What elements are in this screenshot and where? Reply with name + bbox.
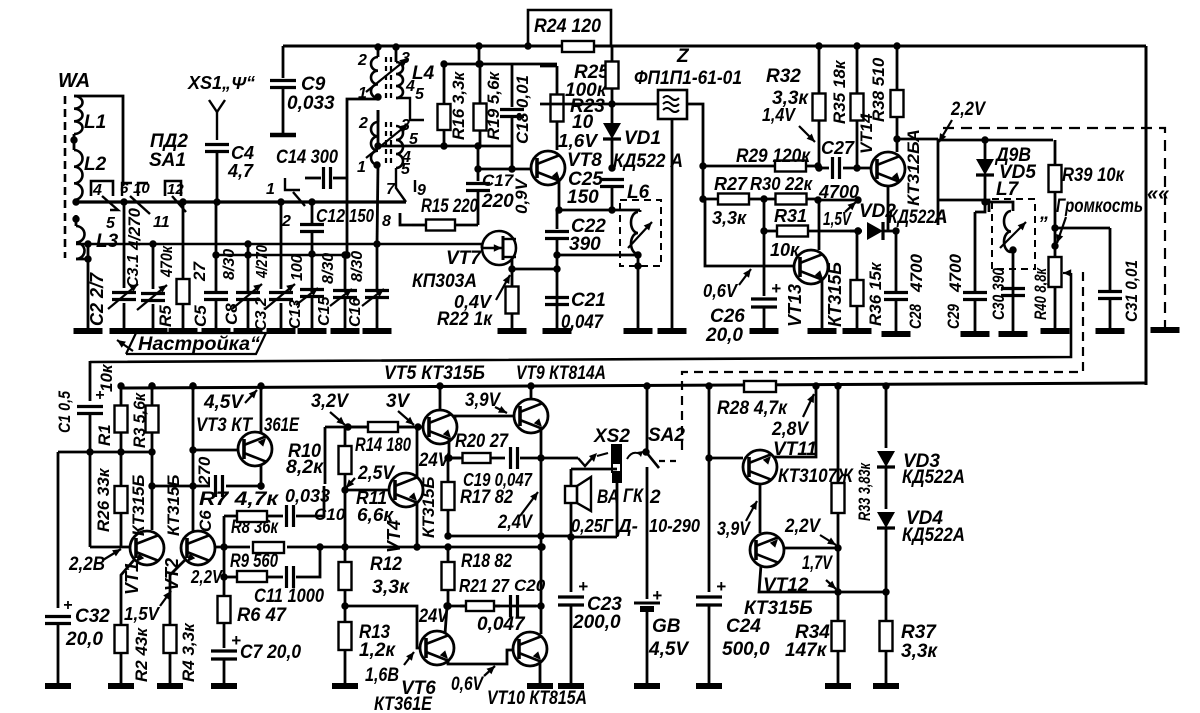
label VT8 (567, 150, 602, 171)
resistor R6 (218, 577, 231, 648)
svg-text:ГК: ГК (623, 486, 644, 507)
label R23 (570, 96, 605, 117)
wire col417 (413, 427, 420, 551)
svg-text:С7 20,0: С7 20,0 (240, 642, 301, 663)
label R34 value (785, 640, 828, 661)
svg-text:XS2: XS2 (593, 426, 630, 447)
svg-text:+: + (771, 279, 781, 298)
label C32 (75, 606, 110, 627)
svg-text:2,8V: 2,8V (771, 419, 809, 440)
svg-text:+: + (716, 577, 726, 596)
svg-text:R1: R1 (95, 424, 114, 446)
wire VT6 base link (345, 606, 419, 648)
ground R2 (108, 683, 134, 689)
label T1 pin4 (405, 78, 415, 95)
label pin11 (153, 214, 170, 231)
wire pin8 to R15 (400, 213, 412, 225)
label R24 (534, 16, 601, 37)
svg-text:20,0: 20,0 (65, 629, 103, 650)
svg-text:C14 300: C14 300 (276, 147, 338, 168)
resistor R3 (146, 382, 159, 455)
label pin4 (92, 182, 102, 199)
wire output hook (570, 453, 608, 466)
svg-text:4700: 4700 (818, 182, 859, 202)
resistor R32 (813, 42, 826, 171)
label C26 value (705, 325, 743, 346)
label C24 value (722, 639, 770, 660)
label VT4 type (419, 477, 438, 538)
label SA2 (648, 425, 685, 446)
svg-text:10: 10 (572, 112, 594, 133)
label voltage 3.9V (465, 390, 507, 413)
svg-text:11: 11 (153, 214, 170, 231)
svg-text:L3: L3 (96, 231, 119, 252)
label R25 value (565, 80, 608, 101)
svg-text:2: 2 (357, 52, 367, 69)
wire col541 (537, 433, 544, 634)
wire L3 bottom (76, 255, 92, 331)
label GB (652, 616, 681, 637)
label voltage 2.4V (497, 492, 538, 533)
svg-text:0,25Г: 0,25Г (571, 516, 614, 536)
label voltage 2.8V (771, 394, 814, 440)
svg-text:VT7: VT7 (446, 248, 482, 269)
capacitor C32 (45, 597, 72, 684)
label C8 value (221, 249, 238, 280)
label pin6 (120, 180, 129, 197)
transistor VT9 (514, 399, 548, 433)
svg-text:C19 0,047: C19 0,047 (463, 470, 533, 490)
svg-text:С15: С15 (316, 296, 333, 326)
label C27 (821, 138, 855, 158)
svg-text:C8: C8 (222, 303, 241, 325)
svg-text:L2: L2 (84, 154, 107, 175)
resistor R39 (1049, 140, 1062, 232)
ground R36 (843, 328, 872, 334)
label C5 (191, 305, 210, 327)
label voltage 1.6B (365, 652, 414, 686)
label C23 (587, 594, 622, 615)
svg-text:1,6В: 1,6В (365, 665, 399, 686)
label C20 (514, 576, 546, 595)
capacitor C5 (204, 202, 228, 331)
svg-text:361Е: 361Е (264, 415, 300, 436)
wire dashed mech link (682, 272, 1083, 452)
resistor R4 (164, 624, 177, 684)
wire VT12 emitter (759, 565, 890, 596)
inductor L7 (985, 202, 1026, 334)
label Z (676, 46, 690, 67)
label T2 pin3 (401, 117, 410, 134)
svg-text:24V: 24V (418, 450, 450, 471)
label VD1 (624, 128, 661, 149)
label C15 value (320, 253, 337, 284)
wire gate line (76, 243, 482, 245)
wire VT5 collector (436, 382, 443, 410)
svg-text:C13: C13 (287, 300, 304, 329)
svg-text:L6: L6 (627, 182, 650, 203)
svg-text:Z: Z (676, 46, 690, 67)
switch SA1 pin6 (122, 183, 132, 196)
label voltage 0.6Vtop (703, 269, 751, 301)
svg-text:С3.1: С3.1 (125, 254, 142, 288)
transformer T2 left winding (371, 122, 378, 165)
label R32 (766, 66, 801, 87)
wire T1 pin1 left (343, 93, 381, 258)
label R29 (736, 146, 811, 167)
svg-text:8: 8 (382, 213, 391, 230)
svg-text:ПД2: ПД2 (150, 131, 188, 152)
svg-text:390: 390 (569, 234, 601, 255)
label R38 (869, 57, 888, 122)
svg-text:R12: R12 (370, 554, 402, 575)
resistor R27 (703, 194, 764, 205)
capacitor C27 (818, 157, 872, 179)
label T1 pin3 (401, 50, 410, 67)
transistor VT2 (181, 531, 215, 565)
label T1 pin2 (357, 52, 367, 69)
wire VT13 collector (818, 200, 821, 250)
svg-text:КТ361Е: КТ361Е (374, 694, 433, 713)
svg-text:С29: С29 (944, 304, 963, 329)
label R37 value (901, 641, 938, 662)
resistor R33 (832, 382, 845, 548)
svg-text:1,5V: 1,5V (124, 604, 161, 624)
label C18 (513, 75, 532, 144)
label R15 (421, 196, 478, 217)
transistor VT14 (871, 152, 905, 186)
inductor L6 box (620, 200, 661, 266)
svg-text:10-290: 10-290 (649, 516, 700, 536)
wire VT4 base (345, 489, 389, 492)
label L7 (996, 179, 1020, 200)
svg-text:КД522А: КД522А (902, 525, 965, 546)
svg-text:L4: L4 (412, 63, 435, 84)
transistor VT4 (389, 473, 423, 507)
svg-text:10к: 10к (97, 363, 116, 392)
svg-text:С30 390: С30 390 (989, 268, 1008, 320)
label VD3 type (902, 467, 965, 488)
label voltage 1.5V (823, 202, 856, 229)
ground R22 (498, 328, 527, 334)
label C9 (301, 74, 326, 95)
svg-text:R18 82: R18 82 (461, 551, 512, 572)
wire VT2 emitter (170, 560, 185, 624)
wire line458 (448, 457, 460, 460)
svg-text:C4: C4 (231, 143, 254, 163)
label R8 (231, 517, 279, 538)
ground C3.2 (267, 328, 296, 334)
label VT1 type (129, 475, 148, 536)
label C21 value (561, 312, 604, 333)
label C11 (254, 586, 324, 607)
label L6 (627, 182, 650, 203)
label Gromkost (1056, 196, 1143, 217)
svg-text:R39 10к: R39 10к (1062, 165, 1125, 186)
label VT14 (857, 113, 876, 154)
label C12 (316, 206, 374, 226)
svg-text:КТ315Б: КТ315Б (164, 475, 183, 536)
wire L2 bottom to line (72, 198, 79, 205)
wire C26 col (763, 199, 766, 296)
label 2 (649, 487, 661, 508)
wire emitter line (612, 209, 640, 212)
label C9 value (287, 93, 335, 114)
svg-text:VT9 КТ814А: VT9 КТ814А (516, 363, 606, 384)
label R4 (179, 622, 198, 682)
resistor R1 (115, 386, 128, 456)
svg-text:„: „ (1039, 203, 1050, 224)
label VD3 (903, 451, 940, 472)
inductor L1 (74, 96, 83, 134)
battery GB (634, 586, 662, 684)
wire VT5 emitter (445, 439, 452, 462)
label VT3 type (264, 415, 300, 436)
label C10 (314, 505, 346, 524)
svg-text:220: 220 (481, 191, 514, 212)
label WA (58, 70, 90, 92)
capacitor C15 (330, 251, 357, 331)
wire plug down (616, 483, 619, 537)
diode VD3 (877, 382, 895, 509)
svg-text:R30 22к: R30 22к (750, 174, 813, 194)
label C29 value (946, 253, 965, 293)
wire line427 (325, 426, 423, 429)
label R36 (866, 261, 885, 326)
label SA1 (149, 150, 186, 171)
label R9 (230, 551, 278, 572)
capacitor C8 (232, 240, 262, 331)
capacitor C6 (216, 475, 265, 497)
label R39 (1062, 165, 1125, 186)
resistor R22 (506, 269, 519, 331)
label C21 (571, 290, 606, 311)
transistor VT13 (794, 250, 828, 284)
svg-text:8/30: 8/30 (320, 253, 337, 284)
wire VT13 base (705, 199, 794, 266)
svg-text:4: 4 (92, 182, 102, 199)
label R31 (774, 206, 807, 226)
svg-text:0,033: 0,033 (285, 486, 330, 506)
label C3.2 value (254, 245, 271, 279)
svg-text:КТ315Б: КТ315Б (744, 598, 813, 619)
ground VT13 (808, 328, 837, 334)
svg-text:2,2V: 2,2V (190, 567, 224, 587)
capacitor C19 (511, 447, 571, 469)
wire VT11 collector (774, 382, 820, 457)
diode VD1 (603, 104, 621, 172)
svg-text:VT14: VT14 (857, 113, 876, 154)
svg-text:6: 6 (120, 180, 129, 197)
resistor R2 (115, 624, 128, 684)
capacitor C22 (545, 210, 569, 331)
wire mid line y255 (216, 254, 347, 256)
svg-text:R22 1к: R22 1к (437, 309, 493, 330)
svg-text:0,6V: 0,6V (703, 281, 739, 301)
wire VT2 collector (189, 382, 196, 531)
wire C20 right (520, 605, 541, 608)
filter Z box (658, 90, 687, 119)
svg-text:КТ315Б: КТ315Б (825, 262, 845, 327)
resistor R15 (412, 220, 478, 231)
label C28 (906, 304, 925, 329)
resistor R9 (237, 571, 283, 582)
label T2 pin4 (401, 149, 411, 166)
antenna WA dashed rod (64, 96, 67, 258)
wire Z right (687, 104, 703, 199)
inductor L3 (76, 226, 85, 259)
svg-text:8,2к: 8,2к (286, 457, 324, 478)
ground GB (634, 683, 660, 689)
wire VT1 emitter (121, 560, 134, 624)
ground C29 (961, 331, 990, 337)
svg-text:WA: WA (58, 70, 90, 92)
label R28 (717, 398, 788, 419)
label T1 pin1 (358, 85, 367, 102)
label VT2 type (164, 475, 183, 536)
transistor VT6 (420, 631, 454, 665)
svg-text:R6 47: R6 47 (237, 605, 287, 626)
label VD4 type (902, 525, 965, 546)
label C1 (55, 391, 74, 433)
label GB value (648, 639, 689, 660)
svg-text:С11 1000: С11 1000 (254, 586, 324, 607)
label VT6 type (374, 694, 433, 713)
capacitor C24 (696, 382, 726, 684)
svg-text:2: 2 (358, 115, 368, 132)
label R13 (359, 622, 390, 643)
capacitor C7 (211, 631, 241, 684)
wire L1-L2 junction (70, 134, 77, 150)
capacitor C17 (466, 169, 490, 225)
svg-text:C2 2/7: C2 2/7 (87, 272, 107, 326)
label R7 (199, 489, 280, 510)
ground R13 (332, 683, 358, 689)
svg-text:470к: 470к (157, 245, 176, 278)
label voltage 2.2Vb (190, 567, 224, 587)
transformer T1 var arrow (366, 58, 408, 92)
label voltage 2.2Vtop (939, 99, 986, 142)
label Gromkost quote2 (1147, 183, 1169, 205)
speaker BA symbol (565, 477, 591, 511)
svg-text:27: 27 (190, 261, 209, 282)
svg-text:С17: С17 (482, 171, 515, 190)
label R14 (355, 435, 411, 456)
wire VT9 collector (527, 382, 534, 400)
capacitor C9 (270, 46, 296, 135)
label voltage 1.4V (762, 105, 815, 142)
svg-text:8/30: 8/30 (221, 249, 238, 280)
label VD5 (999, 162, 1036, 183)
capacitor C1 (77, 361, 104, 547)
wire R7C10 row (224, 515, 237, 518)
label L1 (84, 112, 106, 133)
svg-text:SA2: SA2 (648, 425, 685, 446)
svg-text:0,047: 0,047 (561, 312, 604, 333)
svg-text:0,6V: 0,6V (451, 674, 484, 695)
ground R4 (157, 683, 183, 689)
callout Nastroika arrow (117, 340, 133, 351)
capacitor C30 (1001, 289, 1025, 296)
label VT5 header (384, 363, 485, 384)
wire VT9 emitter (540, 428, 543, 433)
svg-text:R35 18к: R35 18к (830, 59, 849, 124)
label R13 value (359, 640, 396, 661)
label C25 value (567, 187, 599, 208)
transistor VT1 (130, 531, 164, 565)
label C29 (944, 304, 963, 329)
ground C16 (363, 328, 392, 334)
label voltage 3.2V (311, 391, 349, 425)
switch SA1 pin12 box (165, 181, 181, 196)
label C10 value (285, 486, 330, 506)
svg-text:3,3к: 3,3к (712, 208, 747, 228)
label C16 value (349, 251, 366, 282)
svg-text:R36 15к: R36 15к (866, 261, 885, 326)
resistor R24 box (524, 10, 611, 50)
label VT2 (162, 558, 182, 591)
ground Zfilter (658, 328, 687, 334)
svg-text:R4 3,3к: R4 3,3к (179, 622, 198, 682)
resistor R38 (891, 42, 904, 142)
svg-text:R19 5,6к: R19 5,6к (484, 70, 503, 140)
resistor R19 (474, 60, 487, 146)
label T2 pin1 (357, 159, 366, 176)
switch SA1 blade 4 (102, 196, 118, 210)
label C28 value (907, 253, 926, 293)
label R1 value (97, 363, 116, 392)
label C14 (276, 147, 338, 168)
label R40 (1031, 267, 1050, 320)
svg-text:C9: C9 (301, 74, 326, 95)
svg-text:КП303А: КП303А (412, 271, 477, 292)
label L3 (96, 231, 119, 252)
wire C17 junction (474, 142, 512, 172)
label Gromkost quote (1039, 203, 1050, 224)
svg-text:R2 43к: R2 43к (132, 627, 151, 682)
wire speaker line A (448, 533, 575, 540)
capacitor C3.1 (137, 240, 167, 331)
svg-text:С28: С28 (906, 304, 925, 329)
label C30 (989, 268, 1008, 320)
label C3.2 (253, 297, 270, 331)
svg-text:VT1: VT1 (122, 562, 142, 595)
wire T2 pin7 blade (396, 168, 406, 202)
svg-text:10к: 10к (770, 240, 800, 260)
svg-text:8/30: 8/30 (349, 251, 366, 282)
capacitor C21 (545, 298, 569, 305)
label R2 (132, 627, 151, 682)
svg-text:10: 10 (133, 180, 150, 197)
label C3.1 (125, 254, 142, 288)
svg-text:КТ312БА: КТ312БА (904, 129, 923, 206)
label C24 (726, 616, 761, 637)
resistor R35 (851, 42, 864, 171)
switch SA1 pin4 box (91, 181, 113, 196)
wire VT3 base (189, 446, 238, 453)
label voltage 1.5Vb (124, 591, 171, 624)
label R6 (237, 605, 287, 626)
label R10 value (286, 457, 324, 478)
svg-text:С24: С24 (726, 616, 761, 637)
svg-text:3,9V: 3,9V (717, 519, 751, 540)
capacitor C16 (362, 240, 389, 331)
wire dashed shield top (943, 128, 1165, 328)
label R37 (901, 622, 937, 643)
wire R7C10 left (220, 516, 227, 581)
label C20 value (477, 614, 526, 635)
diode VD4 (877, 512, 895, 592)
